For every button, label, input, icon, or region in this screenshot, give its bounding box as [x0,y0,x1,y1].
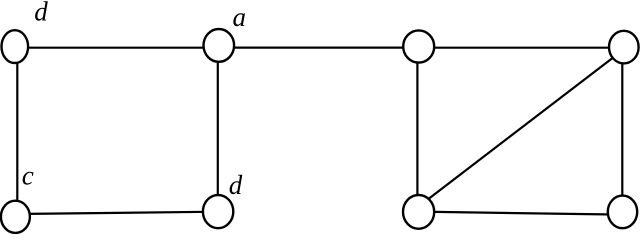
node D (top-right) [609,31,639,64]
node H (bottom-right) [608,196,637,229]
edge E-F (bottom-left horizontal) [16,212,219,214]
edge C-G (right-square left vertical) [416,47,418,212]
svg-text:c: c [22,160,34,190]
node E (bottom-left, labelled c) [1,201,30,233]
svg-text:d: d [34,0,48,27]
node C (top, third) [403,30,434,62]
node A (top-left) [2,30,29,63]
svg-text:d: d [229,170,243,200]
node F (bottom, labelled d) [203,195,233,228]
svg-text:a: a [233,2,247,32]
edge G-D (diagonal) [419,49,624,206]
edge A-B (top-left horizontal) [15,47,219,49]
edge C-D (top right horizontal) [418,47,624,49]
edge G-H (bottom-right horizontal) [419,212,623,215]
edge B-F (middle vertical) [217,46,219,212]
edge D-H (right vertical) [621,47,623,212]
edge A-E (left vertical) [16,47,18,216]
node B (top, labelled a) [204,29,235,62]
edge B-C (top middle horizontal) [218,46,419,48]
node G (bottom, third) [403,195,434,229]
